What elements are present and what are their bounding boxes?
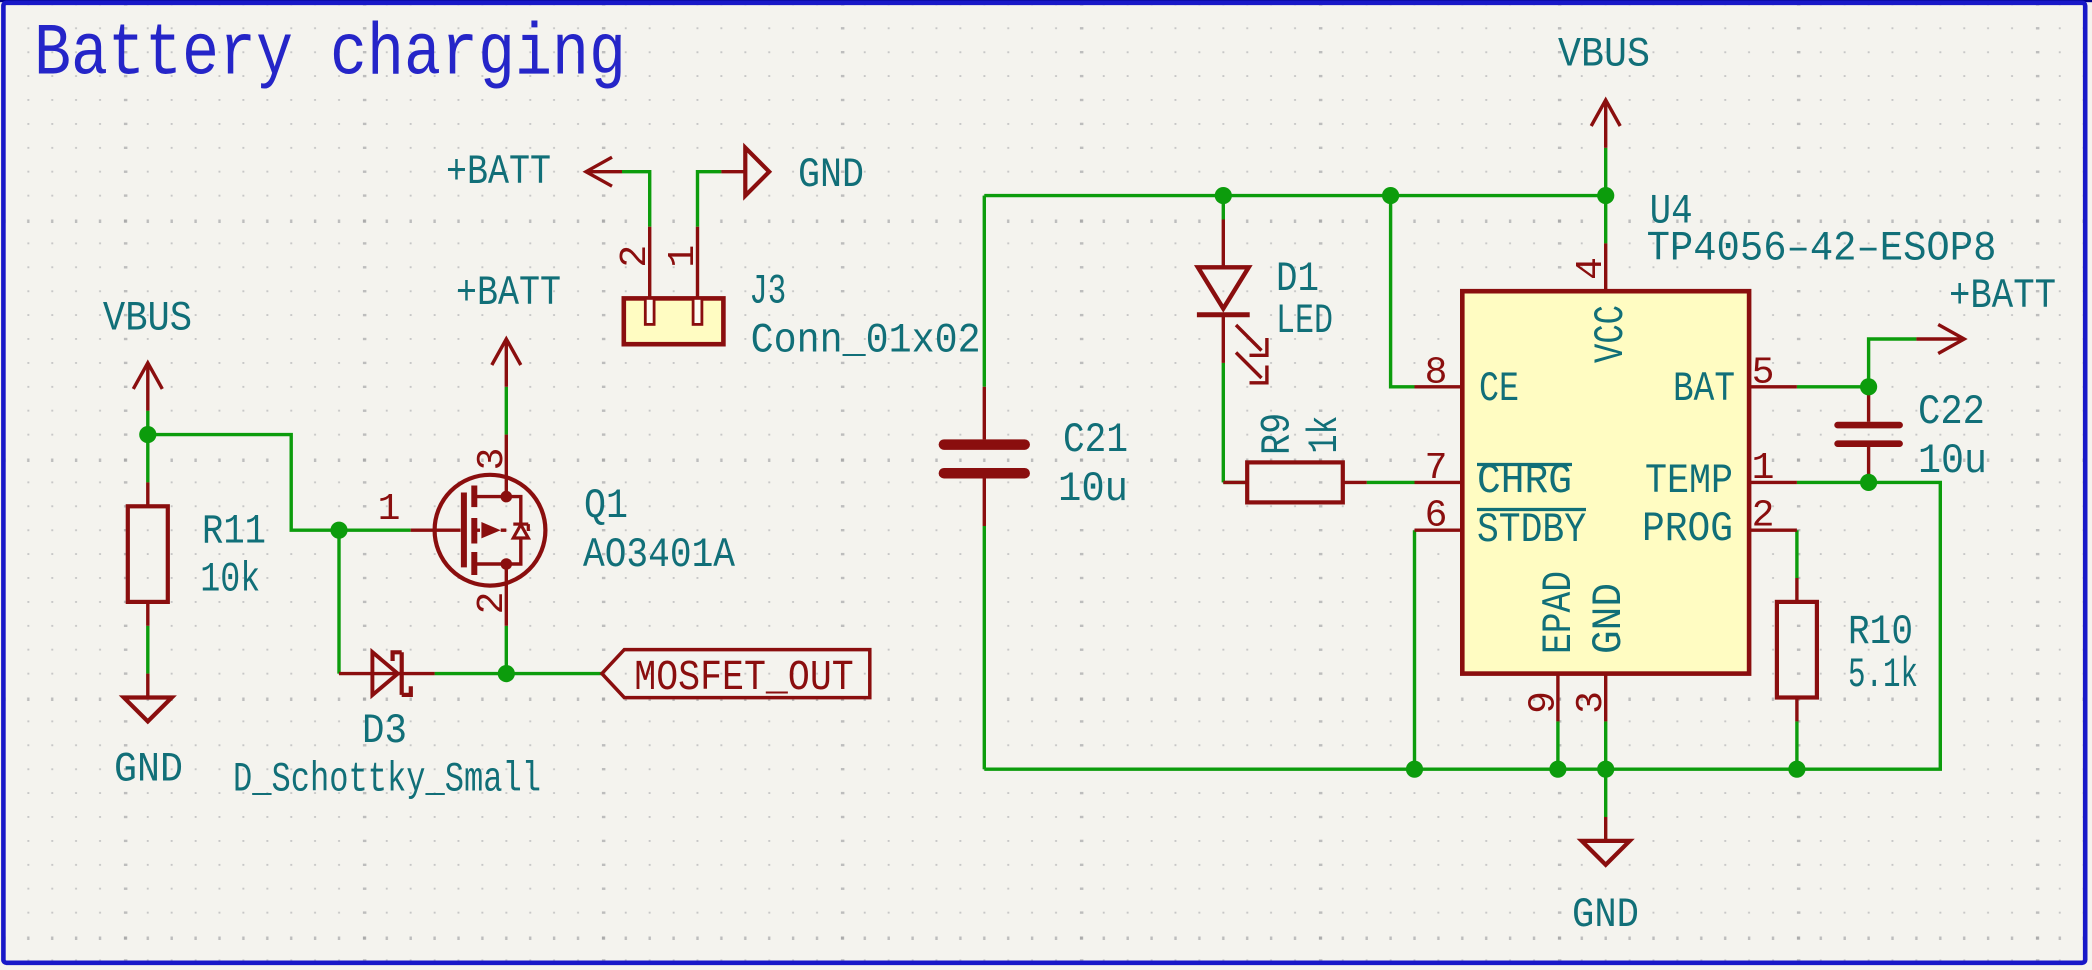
- svg-text:10u: 10u: [1058, 465, 1128, 513]
- svg-text:1: 1: [662, 245, 705, 268]
- svg-text:VBUS: VBUS: [103, 295, 192, 343]
- svg-text:5.1k: 5.1k: [1848, 651, 1918, 699]
- svg-text:GND: GND: [1572, 891, 1639, 939]
- svg-text:2: 2: [614, 245, 657, 268]
- svg-text:1k: 1k: [1301, 416, 1349, 454]
- svg-text:3: 3: [471, 448, 514, 471]
- svg-text:10k: 10k: [200, 556, 260, 604]
- svg-text:+BATT: +BATT: [446, 148, 551, 196]
- svg-text:J3: J3: [749, 268, 786, 316]
- svg-text:AO3401A: AO3401A: [583, 531, 736, 579]
- svg-text:CE: CE: [1479, 365, 1519, 413]
- svg-text:PROG: PROG: [1642, 505, 1733, 553]
- svg-text:R9: R9: [1254, 413, 1302, 455]
- svg-text:+BATT: +BATT: [456, 269, 561, 317]
- svg-text:Q1: Q1: [584, 482, 628, 530]
- svg-text:D_Schottky_Small: D_Schottky_Small: [233, 756, 541, 804]
- svg-text:3: 3: [1570, 691, 1613, 714]
- svg-text:VCC: VCC: [1587, 305, 1635, 363]
- svg-text:D1: D1: [1276, 255, 1319, 303]
- svg-text:Conn_01x02: Conn_01x02: [751, 317, 981, 365]
- svg-text:GND: GND: [798, 151, 864, 199]
- svg-text:4: 4: [1570, 257, 1613, 280]
- svg-text:2: 2: [471, 592, 514, 615]
- svg-text:8: 8: [1425, 351, 1448, 394]
- svg-text:TP4056–42–ESOP8: TP4056–42–ESOP8: [1647, 225, 1997, 273]
- svg-text:EPAD: EPAD: [1535, 571, 1583, 654]
- svg-text:VBUS: VBUS: [1558, 30, 1650, 78]
- svg-text:STDBY: STDBY: [1477, 506, 1586, 554]
- svg-text:R10: R10: [1848, 608, 1913, 656]
- svg-text:2: 2: [1752, 495, 1775, 538]
- svg-text:1: 1: [1752, 447, 1775, 490]
- svg-text:TEMP: TEMP: [1645, 457, 1733, 505]
- svg-text:Battery charging: Battery charging: [34, 13, 626, 96]
- svg-text:1: 1: [378, 488, 401, 531]
- svg-text:+BATT: +BATT: [1949, 272, 2056, 320]
- svg-text:MOSFET_OUT: MOSFET_OUT: [634, 653, 853, 702]
- svg-text:LED: LED: [1276, 297, 1333, 345]
- svg-text:D3: D3: [362, 707, 407, 755]
- svg-text:C22: C22: [1918, 388, 1985, 436]
- svg-text:6: 6: [1425, 495, 1448, 538]
- svg-text:R11: R11: [202, 507, 266, 555]
- svg-text:GND: GND: [114, 746, 183, 794]
- svg-text:GND: GND: [1585, 583, 1633, 654]
- svg-text:BAT: BAT: [1673, 365, 1735, 413]
- svg-text:10u: 10u: [1918, 437, 1987, 485]
- svg-text:9: 9: [1522, 691, 1565, 714]
- svg-text:C21: C21: [1063, 416, 1128, 464]
- svg-text:7: 7: [1425, 447, 1448, 490]
- svg-text:5: 5: [1752, 351, 1775, 394]
